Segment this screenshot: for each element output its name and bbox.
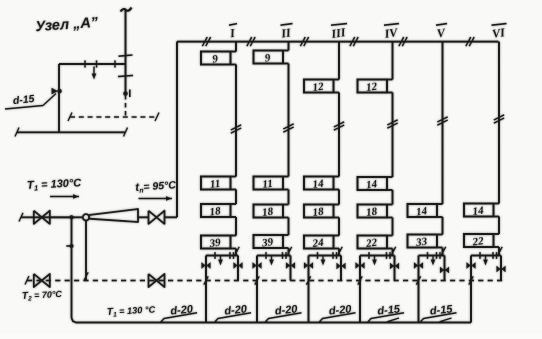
riser I return drop valve	[233, 262, 237, 269]
riser IV return drop	[394, 256, 396, 281]
top header pipe	[177, 41, 499, 43]
riser IV supply drop	[359, 256, 361, 323]
radiator III-12	[304, 80, 334, 93]
header break 5	[399, 37, 404, 46]
riser VI break	[494, 115, 504, 120]
riser V supply drop valve	[414, 262, 418, 269]
riser III pipe	[338, 42, 340, 80]
bypass drop from junction	[71, 217, 73, 318]
riser V return drop	[444, 256, 446, 281]
node A branch pipe	[59, 63, 126, 65]
riser II supply drop valve	[252, 262, 256, 269]
radiator III-14	[304, 177, 334, 190]
riser I supply drop	[205, 256, 207, 323]
header break 1	[202, 37, 207, 46]
radiator II-39	[254, 235, 284, 248]
dashed return main	[27, 280, 504, 282]
pipe valve to elevator	[50, 216, 83, 218]
riser III drain header	[309, 255, 342, 257]
riser III supply drop	[308, 256, 310, 323]
riser II break	[283, 124, 293, 129]
radiator III-24	[304, 236, 334, 249]
node A cock on dashed segment	[123, 91, 128, 96]
elevator suction drop	[85, 220, 87, 280]
riser I break	[231, 125, 241, 130]
riser VI return drop valve	[496, 266, 500, 273]
supply pipe T1	[21, 216, 75, 218]
node A cock on drop	[52, 88, 59, 95]
riser II pipe	[288, 42, 290, 51]
radiator IV-18	[358, 205, 388, 218]
riser III break	[334, 122, 344, 127]
radiator VI-22	[464, 234, 494, 247]
riser IV return drop valve	[390, 263, 394, 270]
radiator II-11	[254, 177, 284, 190]
node A branch union tick 2	[96, 60, 98, 67]
pipe to main riser	[164, 216, 177, 218]
elevator cone	[89, 209, 138, 222]
pipe elevator to valve	[138, 216, 149, 218]
elevator nozzle circle	[83, 214, 89, 220]
radiator III-18	[304, 205, 334, 218]
node A riser union tick 2	[118, 75, 133, 76]
riser III return drop	[340, 256, 342, 281]
riser IV break	[387, 120, 397, 125]
radiator V-14	[408, 204, 438, 217]
valve on return mid	[149, 274, 165, 287]
bottom supply header	[76, 322, 472, 324]
tn flow arrow	[139, 198, 173, 200]
node A dashed riser segment	[125, 95, 127, 117]
riser V break	[437, 117, 447, 122]
node A riser pipe	[125, 9, 127, 94]
node A drop pipe	[58, 64, 60, 132]
radiator V-33	[408, 235, 438, 248]
valve after elevator	[149, 211, 165, 224]
riser III supply drop valve	[304, 262, 308, 269]
node A d-15 leader line	[5, 94, 56, 110]
riser VI pipe	[498, 42, 500, 204]
riser I pipe	[235, 42, 237, 52]
riser VI supply drop valve	[466, 262, 470, 269]
node A branch union tick 1	[84, 60, 86, 67]
riser IV pipe	[392, 42, 394, 80]
node A branch air-vent arrow	[93, 67, 95, 76]
riser III return drop valve	[336, 263, 340, 270]
riser II return drop valve	[286, 262, 290, 269]
cock on bypass drop	[66, 245, 70, 247]
supply flow arrow	[50, 196, 79, 198]
radiator I-18	[201, 204, 231, 217]
node A bottom supply pipe	[17, 131, 126, 133]
header break 4	[350, 37, 355, 46]
radiator I-9	[201, 52, 231, 65]
riser II supply drop	[256, 256, 258, 323]
riser VI return drop	[500, 256, 502, 281]
radiator I-39	[201, 236, 231, 249]
riser V return drop valve	[440, 267, 444, 274]
radiator IV-12	[358, 80, 388, 93]
riser V drain header	[419, 255, 445, 257]
riser I supply drop valve	[201, 262, 205, 269]
radiator II-18	[254, 205, 284, 218]
riser V pipe	[442, 42, 444, 204]
header break 2	[247, 37, 252, 46]
riser VI drain header	[471, 255, 501, 257]
junction node	[69, 215, 73, 219]
riser II return drop	[290, 256, 292, 281]
node A branch union tick 3	[114, 60, 116, 67]
node A riser union tick 1	[119, 55, 133, 56]
riser V supply drop	[418, 256, 420, 323]
radiator VI-14	[464, 204, 494, 217]
main supply riser	[176, 42, 178, 218]
riser IV drain header	[360, 255, 395, 257]
radiator IV-14	[358, 177, 388, 190]
radiator IV-22	[358, 236, 388, 249]
riser I return drop	[237, 256, 239, 281]
riser VI supply drop	[470, 256, 472, 323]
radiator II-9	[254, 51, 284, 64]
node A dashed return pipe	[70, 116, 157, 118]
riser I drain header	[206, 255, 238, 257]
header break 3	[300, 37, 305, 46]
riser IV supply drop valve	[355, 262, 359, 269]
valve supply	[34, 211, 50, 224]
return valve T2	[34, 274, 50, 287]
riser II drain header	[257, 255, 291, 257]
header break 6	[466, 37, 471, 46]
radiator I-11	[201, 177, 231, 190]
